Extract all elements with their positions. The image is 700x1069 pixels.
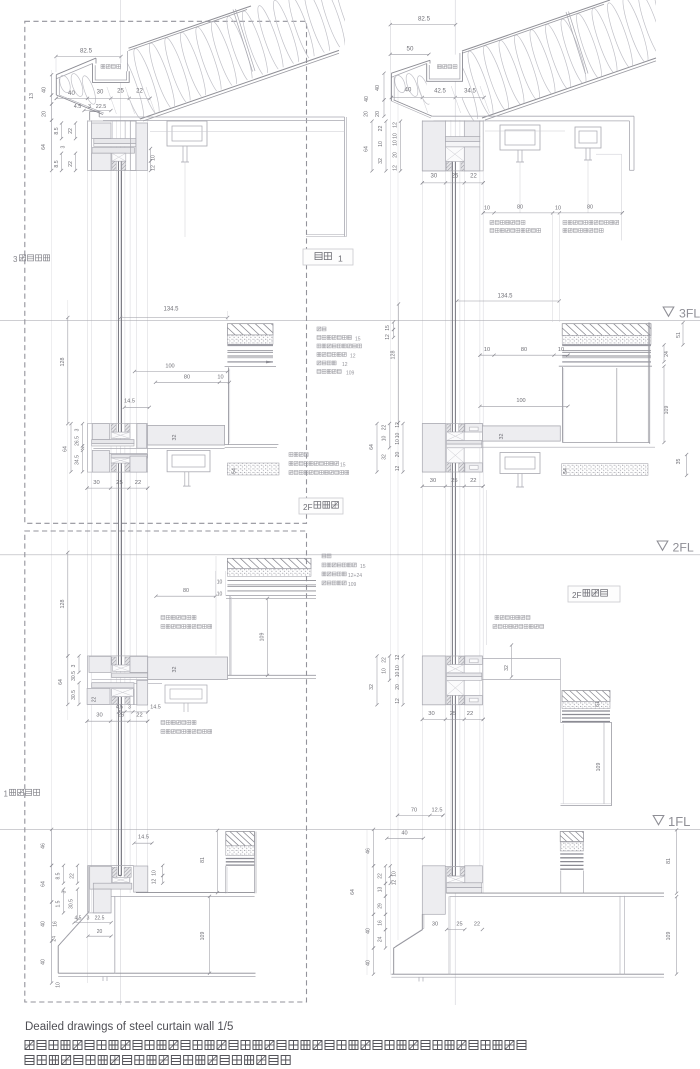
mullion head assembly right column 3F [422,121,483,171]
svg-text:22: 22 [378,873,384,879]
sill-R packer hatch left [447,868,452,876]
svg-text:22: 22 [70,873,76,879]
ceiling stipple band left 2F (below landing) [227,463,279,475]
svg-text:109: 109 [200,932,206,941]
svg-text:42.5: 42.5 [434,89,446,95]
svg-text:8.5: 8.5 [54,160,60,167]
svg-text:22: 22 [378,126,384,132]
roof top chord top-right (double line) [462,0,610,51]
svg-text:25: 25 [452,174,459,180]
svg-text:22: 22 [92,697,98,703]
mid-R lower-right block with bead [465,463,483,472]
window box below right 3FL (stairwell window) [559,365,652,367]
svg-text:22: 22 [470,478,476,484]
svg-text:22: 22 [135,480,141,486]
svg-text:54: 54 [563,468,569,474]
head-L top row glazing channel lines [111,121,113,139]
svg-text:34.5: 34.5 [75,455,81,465]
head-R bar1 [446,137,480,142]
svg-text:13: 13 [29,93,35,99]
svg-text:30: 30 [97,90,104,96]
svg-text:1: 1 [338,254,343,264]
floor slab bar left 2F landing [148,425,225,445]
svg-text:26.5: 26.5 [75,436,81,446]
svg-text:32: 32 [504,665,510,671]
caption japanese line 1 [25,1041,526,1050]
stair mid-landing hatch band right [562,691,610,702]
1Fmid-R packer hatch upper left [447,657,451,665]
svg-text:22: 22 [68,161,74,167]
svg-text:10: 10 [217,580,223,586]
svg-text:4.5: 4.5 [74,104,82,110]
svg-text:51: 51 [676,332,682,338]
svg-text:10: 10 [378,141,384,147]
svg-text:3FL: 3FL [679,307,700,321]
mid-L right block lower [130,456,147,472]
svg-text:128: 128 [60,600,66,609]
svg-text:4.5: 4.5 [116,705,123,711]
ceiling line top-left (double) [99,116,344,118]
1Fmid-R packer hatch upper right [459,657,464,665]
svg-text:40: 40 [41,921,47,927]
window head step top-left [90,112,100,121]
mid-L bar3 [111,454,147,458]
window box below left 3FL [225,366,276,368]
window box left 2F [226,595,316,597]
svg-text:12: 12 [395,466,401,472]
svg-text:30: 30 [431,174,438,180]
wire: right column mullion construction lines [421,120,423,930]
svg-text:25: 25 [456,922,462,928]
mullion head assembly left column 3F [88,121,136,171]
svg-text:30.5: 30.5 [69,899,75,909]
svg-text:10: 10 [555,206,561,212]
head-R x-box [446,147,465,162]
svg-text:82.5: 82.5 [418,16,431,23]
blind window box right (under bedroom window) [596,153,622,155]
dashed detail border rect lower [25,531,307,1002]
stair mid-landing stripes right [562,710,610,712]
curtain bracket left head [167,121,207,146]
blind box extension verticals right [552,214,554,322]
svg-text:1.5: 1.5 [56,900,62,907]
head-R packer hatch right [461,162,464,171]
head-L upper block [92,123,111,139]
slanted extension lines roof dims right [422,98,428,114]
svg-text:12.5: 12.5 [432,808,443,814]
dashed detail border rect upper [25,21,307,523]
svg-text:15: 15 [355,337,361,343]
svg-text:51: 51 [595,701,601,707]
head-R upper-right block [464,121,480,137]
sill-L right block [134,866,148,892]
svg-text:134.5: 134.5 [163,307,179,313]
svg-text:80: 80 [183,588,189,594]
svg-text:82.5: 82.5 [80,48,93,55]
svg-text:64: 64 [364,146,370,152]
svg-text:32: 32 [499,434,505,440]
floor finish hatch band left 2FL [227,558,311,568]
floor slab bar left 1F-mid [148,657,228,680]
svg-text:29: 29 [378,903,384,909]
mid-L x-box upper [111,432,130,438]
svg-text:109: 109 [346,371,355,377]
svg-text:Deailed drawings of steel curt: Deailed drawings of steel curtain wall 1… [25,1021,233,1033]
roof panel seam top-right [566,12,586,74]
mid-R packer hatch upper right [459,424,464,432]
svg-text:12: 12 [350,354,356,360]
svg-text:10: 10 [395,665,401,671]
head-L bar3 [92,148,134,154]
1Fmid-L head bar [92,683,134,688]
svg-text:25: 25 [118,713,124,719]
svg-text:8.5: 8.5 [56,872,62,879]
head-L glazing x-box [112,153,126,161]
slanted extension lines roof dims left [111,98,117,114]
mullion 1F-mid assembly right column [422,656,482,705]
slab inner verticals left [113,896,115,973]
window box left 1F [225,866,227,894]
svg-text:10: 10 [382,668,388,674]
svg-text:22: 22 [474,922,480,928]
label 雨水トユ top-left [101,65,121,69]
anchor tick below slab left [102,976,104,981]
mid-R big block [422,424,445,473]
svg-text:10: 10 [217,374,223,380]
svg-text:20: 20 [393,152,399,158]
svg-text:25: 25 [117,88,124,94]
floor stripes left 1F [226,858,255,860]
svg-text:3: 3 [75,428,81,431]
svg-text:24: 24 [664,351,670,357]
spec text block left 3FL (finish floor spec) [317,327,326,331]
glass bottom cap right sill [452,875,455,877]
mid-R x-box upper [447,432,465,441]
svg-text:3: 3 [88,104,91,110]
svg-text:22.5: 22.5 [96,104,107,110]
svg-text:16: 16 [53,921,59,927]
svg-text:40: 40 [42,87,48,93]
svg-text:15: 15 [360,564,366,570]
sill-L bar [93,883,132,889]
1Fmid-L x-box lower [112,688,134,696]
floor slab bar right 2F [482,426,560,441]
svg-text:24: 24 [378,936,384,942]
svg-text:64: 64 [58,679,64,685]
svg-text:100: 100 [165,364,174,370]
svg-text:8.5: 8.5 [54,127,60,134]
mid-L bar1 [92,440,134,444]
svg-text:30: 30 [96,713,102,719]
svg-text:12+24: 12+24 [348,573,362,579]
svg-text:14.5: 14.5 [150,705,161,711]
svg-text:22: 22 [467,711,473,717]
anchor tick below slab right [418,977,420,982]
svg-text:10: 10 [558,347,564,353]
svg-text:30.5: 30.5 [71,671,77,681]
svg-text:128: 128 [391,351,397,360]
slab top right (double line) [446,892,664,894]
head-L bar1 [94,139,136,144]
svg-text:80: 80 [184,374,190,380]
wire: vertical construction centerline left column [120,0,122,1005]
svg-text:34.5: 34.5 [464,89,476,95]
svg-text:134.5: 134.5 [497,294,513,300]
glazing glass line right column [451,161,453,432]
mid-R packer hatch lower right [459,463,464,472]
roof bottom chord top-right (double line) [482,58,656,118]
head-L glazing packer hatch left [112,161,116,170]
svg-text:13: 13 [378,887,384,893]
head-R lower-right block [464,147,480,171]
svg-text:64: 64 [350,889,356,895]
svg-text:12: 12 [395,422,401,428]
eave soffit sloped top-left [56,95,103,115]
label 80mm slat blind below 1Fmid-L [161,721,196,725]
label 2F ceiling spec left [289,453,308,457]
svg-text:80: 80 [521,347,527,353]
svg-text:22: 22 [136,713,142,719]
mid-R packer hatch lower left [447,463,451,472]
floor finish hatch band left 1F [226,832,255,846]
svg-text:81: 81 [200,857,206,863]
glass bottom cap left sill [118,875,121,877]
svg-text:40: 40 [405,88,412,94]
sill-L x-box [112,877,129,882]
svg-text:3: 3 [87,916,90,922]
svg-text:14.5: 14.5 [124,399,135,405]
interior wall right end of bedroom ceiling left detail [344,117,346,237]
label 80mm slat blind right 2F [495,616,530,620]
svg-text:40: 40 [401,830,407,836]
floor finish hatch band right 3FL [562,324,651,336]
svg-text:12: 12 [385,334,391,340]
svg-text:46: 46 [41,843,47,849]
1Fmid-L upper-left block [89,656,111,672]
room label box 2F踊り場 [299,498,343,514]
svg-text:10: 10 [393,133,399,139]
svg-text:22: 22 [68,128,74,134]
1Fmid-R upper-right block with bead [465,656,483,665]
window box right 1F below band [560,871,562,894]
floor finish hatch band right 1F [560,832,583,842]
mullion mid assembly left column 2F landing [87,424,147,473]
sill-L packer hatch left [112,867,117,877]
stair mid-landing stipple right [562,702,610,709]
svg-text:32: 32 [172,667,178,673]
mid-L packer hatch lower right [125,463,130,471]
svg-text:40: 40 [366,928,372,934]
svg-text:3: 3 [13,255,18,264]
sill-L packer hatch right [124,867,131,877]
1Fmid-R packer hatch lower left [447,695,451,704]
svg-text:22.5: 22.5 [95,916,105,922]
slab top left (double line) [136,892,255,894]
svg-text:128: 128 [60,358,66,367]
1Fmid-L packer hatch lower right [125,697,130,704]
svg-text:109: 109 [664,406,670,415]
node 1FL level line [0,828,700,830]
1Fmid-L x-box [112,665,130,671]
head-R bar2 [446,142,480,147]
svg-text:12: 12 [392,880,398,886]
svg-text:35: 35 [676,459,682,465]
label curtain fabric right head [563,221,619,225]
svg-text:1FL: 1FL [668,814,690,829]
svg-text:10: 10 [393,140,399,146]
sill-R x-box [447,876,465,883]
level marker 1FL [653,816,664,825]
svg-text:12: 12 [395,655,401,661]
floor stipple band left 2FL [227,569,311,577]
svg-text:3: 3 [128,705,131,711]
mid-L ceiling lines 2F [93,447,224,449]
svg-text:30: 30 [432,922,438,928]
floor stipple band right 1F [560,842,583,851]
mid-L packer hatch lower left [111,463,116,471]
svg-text:109: 109 [348,582,357,588]
svg-text:4.5: 4.5 [75,916,82,922]
eave cap flashing top-right [391,60,430,73]
roof top chord top-left (double line) [129,6,252,48]
svg-text:80: 80 [517,205,523,211]
svg-text:64: 64 [369,444,375,450]
floor board lines right 3FL [562,344,651,346]
svg-text:20: 20 [97,929,103,935]
mid-R bar1 [447,441,482,445]
curtain rail line right head [485,130,565,132]
1Fmid-L packer hatch lower left [112,697,118,704]
svg-text:30: 30 [430,478,436,484]
curtain bracket 1 right head [500,125,540,150]
head-L interior trim column [130,121,136,171]
floor lines left 2FL [227,580,316,582]
svg-text:25: 25 [450,711,456,717]
mid-L lower-left block [92,450,109,472]
foundation profile right [394,914,423,974]
node 3FL level line [0,319,700,321]
sill-R packer hatch right [461,868,465,876]
curtain rail line left head [150,131,345,133]
svg-text:10: 10 [484,206,490,212]
curtain bracket below 1F-mid-left [165,685,207,703]
label 80mm slat blind left 2F [161,616,196,620]
svg-text:50: 50 [407,46,414,53]
leader arrow floor spec left 3FL [266,361,273,364]
ceiling stipple band right 2F (below 3F floor) [562,464,648,476]
1Fmid-L ceiling lines 1F [92,678,225,680]
svg-text:32: 32 [382,454,388,460]
svg-text:25: 25 [451,478,457,484]
svg-text:3: 3 [61,145,67,148]
svg-text:20: 20 [395,684,401,690]
wire: left column mullion construction lines [87,120,89,983]
svg-text:14.5: 14.5 [138,834,149,840]
floor board lines left 3FL [227,344,273,346]
svg-text:20: 20 [375,111,381,117]
mid-R bar2 [447,444,482,448]
mullion 1F-mid assembly left column [87,656,147,705]
svg-text:10: 10 [484,347,490,353]
svg-text:1: 1 [4,790,9,799]
head-L lower block [92,153,111,170]
svg-text:24: 24 [52,936,58,942]
1Fmid-L packer hatch upper right [125,657,130,665]
svg-text:16: 16 [378,920,384,926]
svg-text:10: 10 [56,982,62,988]
curtain bracket 2 right head [575,127,601,148]
svg-text:109: 109 [596,763,602,772]
slab bottom left (double line) [58,972,255,974]
stair floor lines right 1F-mid [482,658,560,660]
svg-text:30: 30 [93,480,99,486]
svg-text:81: 81 [666,858,672,864]
floor stipple band left 1F [226,846,255,856]
svg-text:64: 64 [63,446,69,452]
sill-L left block [90,867,112,890]
svg-text:22: 22 [136,88,143,94]
mid-R x-box lower [447,448,465,463]
room label box 寝室1 [303,249,353,265]
svg-text:40: 40 [41,959,47,965]
svg-text:32: 32 [378,158,384,164]
svg-text:109: 109 [260,633,266,642]
svg-text:70: 70 [411,808,417,814]
head-L glazing packer hatch right [122,161,126,170]
1Fmid-L right block upper [130,656,148,672]
roof panel seam top-left [233,10,253,72]
svg-text:25: 25 [116,480,122,486]
1Fmid-R x-box upper [447,665,465,674]
svg-text:3: 3 [71,664,77,667]
wire: dim extension verticals right [389,20,391,975]
svg-text:10: 10 [395,672,401,678]
1Fmid-L right block lower [137,680,148,705]
svg-text:2F: 2F [303,503,313,512]
svg-text:30: 30 [428,711,434,717]
svg-text:10: 10 [392,871,398,877]
floor stipple band left 3FL [227,335,273,344]
curtain bracket below right 2F floor [500,453,540,474]
svg-text:46: 46 [366,848,372,854]
slab inner verticals right [448,896,450,974]
curtain bracket below 2F landing floor [167,450,210,471]
level marker 2FL [657,541,668,550]
svg-text:40: 40 [68,91,75,97]
svg-text:10: 10 [382,436,388,442]
mid-L upper-left block [92,424,109,440]
head-L outer angle lines [91,121,93,171]
svg-text:20: 20 [364,111,370,117]
svg-text:3: 3 [62,890,68,893]
1Fmid-R packer hatch lower right [459,695,464,704]
roof band left cut edge [126,51,128,72]
svg-text:10: 10 [395,439,401,445]
svg-text:40: 40 [375,85,381,91]
sill-R big block [422,866,445,915]
label 雨水トユ top-right [438,65,458,69]
svg-text:12: 12 [395,698,401,704]
svg-text:100: 100 [516,398,525,404]
mid-R upper-right block with bead [465,424,483,433]
eave soffit sloped top-right [394,100,433,116]
mid-L bar2 [92,444,134,446]
sill-R right block [465,866,483,883]
head-R packer hatch left [446,162,451,171]
1Fmid-R x-box lower [447,680,465,695]
1Fmid-R big block [422,656,445,705]
svg-text:12: 12 [342,362,348,368]
